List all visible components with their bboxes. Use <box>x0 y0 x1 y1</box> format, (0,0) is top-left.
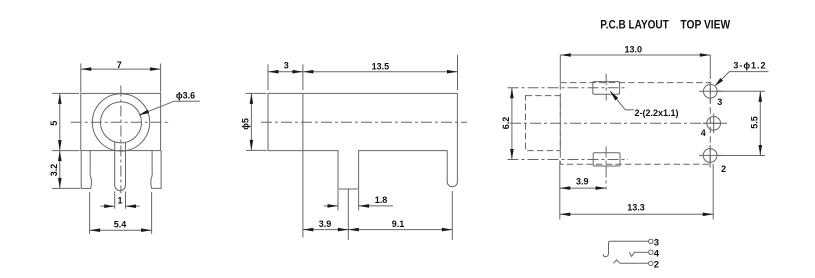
dim 3.9 / 9.1 line <box>303 229 452 231</box>
svg-text:2-(2.2x1.1): 2-(2.2x1.1) <box>635 108 679 118</box>
lower slot centerlines <box>605 147 607 190</box>
svg-text:13.3: 13.3 <box>627 203 645 213</box>
tip contact hook <box>603 243 608 257</box>
hole 4 <box>707 116 721 130</box>
svg-text:3-ϕ1.2: 3-ϕ1.2 <box>733 61 765 71</box>
svg-text:3.2: 3.2 <box>49 164 59 177</box>
svg-text:1: 1 <box>117 196 122 206</box>
svg-text:5.4: 5.4 <box>114 219 127 229</box>
barrel outer circle <box>92 94 149 151</box>
footprint dashed rect <box>560 83 710 165</box>
dim 1 extension lines <box>114 192 116 209</box>
left mount leg <box>81 151 91 189</box>
barrel joint line <box>302 93 304 150</box>
dim 1 arrows <box>101 205 115 207</box>
horizontal centerline front <box>71 121 171 123</box>
barrel inner circle phi3.6 <box>101 102 142 143</box>
barrel dashed rect <box>526 96 561 151</box>
dim 5.5 <box>718 90 766 92</box>
pin 2 contact <box>614 260 620 263</box>
svg-text:5: 5 <box>49 121 59 126</box>
upper slot <box>593 82 620 95</box>
pin 3 wire <box>609 241 649 243</box>
svg-text:3: 3 <box>717 97 722 107</box>
svg-text:13.0: 13.0 <box>625 45 643 55</box>
svg-text:5.5: 5.5 <box>749 116 759 129</box>
svg-text:ϕ3.6: ϕ3.6 <box>176 90 195 100</box>
svg-text:13.5: 13.5 <box>372 61 390 71</box>
dim 3.9 pcb <box>559 161 561 220</box>
main centerline pcb <box>510 122 730 124</box>
lower slot <box>593 153 620 166</box>
right mount leg <box>151 151 161 189</box>
dim 3.9 / 9.1 extension lines <box>302 151 304 238</box>
pin 3 terminal circle <box>649 239 653 243</box>
svg-text:4: 4 <box>701 128 706 138</box>
pin 4 wire <box>634 251 648 253</box>
svg-text:6.2: 6.2 <box>501 117 511 130</box>
svg-text:3: 3 <box>654 237 659 248</box>
upper slot centerlines <box>605 74 607 101</box>
svg-text:4: 4 <box>654 248 660 259</box>
pin 2 wire <box>620 262 649 264</box>
dim 3 / 13.5 extension lines <box>267 64 269 90</box>
body front rectangle <box>81 93 161 150</box>
dim 6.2 <box>511 88 513 160</box>
body side outline with leg and pin <box>268 93 457 189</box>
svg-text:P.C.B LAYOUT: P.C.B LAYOUT <box>600 18 669 32</box>
center pin front <box>115 143 126 191</box>
svg-text:3.9: 3.9 <box>576 176 589 186</box>
dim 13.0 <box>559 55 561 83</box>
svg-text:TOP VIEW: TOP VIEW <box>680 18 730 32</box>
pin 4 terminal circle <box>649 250 653 254</box>
svg-text:9.1: 9.1 <box>392 219 405 229</box>
dim 3 / 13.5 line <box>268 71 458 73</box>
dim 5 / 3.2 vertical line <box>59 93 61 188</box>
dim 7 line <box>81 68 161 70</box>
svg-text:1.8: 1.8 <box>375 195 388 205</box>
pin 2 terminal circle <box>649 261 653 265</box>
centerline side <box>261 121 467 123</box>
dim phi5 <box>250 93 252 150</box>
dim 13.3 <box>712 164 714 220</box>
svg-text:2: 2 <box>721 164 726 174</box>
svg-text:3.9: 3.9 <box>319 219 332 229</box>
hole 2 <box>703 149 717 163</box>
svg-text:2: 2 <box>654 259 659 270</box>
hole 3 <box>703 84 717 98</box>
svg-text:3: 3 <box>284 61 289 71</box>
dim 5.4 <box>89 192 91 234</box>
svg-text:ϕ5: ϕ5 <box>241 118 251 130</box>
pin 4 contact <box>629 252 634 257</box>
svg-text:7: 7 <box>117 60 122 70</box>
dim 1.8 <box>337 190 339 211</box>
dim 7 extension lines <box>80 64 82 93</box>
vertical centerline front <box>120 86 122 194</box>
